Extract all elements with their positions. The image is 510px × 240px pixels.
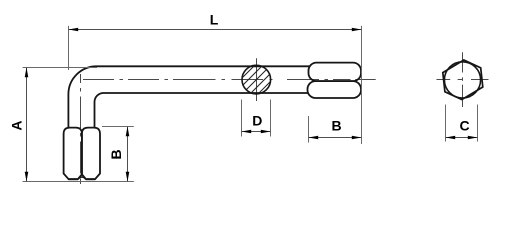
dimension L: left arrow bbox=[69, 28, 79, 32]
hexagon inscribed circle bbox=[444, 62, 480, 98]
hexagon C end view bbox=[443, 60, 483, 100]
node D-circle vertical centerline bbox=[256, 58, 258, 101]
dimension A: line bbox=[26, 68, 28, 182]
dimension B right: left extension line bbox=[308, 116, 310, 143]
left hex end: bottom flats bbox=[69, 178, 95, 180]
dimension A: top arrow bbox=[25, 68, 29, 78]
dimension A: bottom arrow bbox=[25, 172, 29, 182]
dimension L: right arrow bbox=[352, 28, 362, 32]
dimension B right: left arrow bbox=[309, 136, 319, 140]
svg-text:B: B bbox=[331, 118, 341, 134]
dimension L: line bbox=[69, 29, 362, 31]
svg-text:B: B bbox=[108, 149, 124, 159]
D section hatched circle bbox=[222, 50, 286, 114]
dimension D: line bbox=[242, 131, 271, 133]
right tip: top pill bbox=[309, 63, 362, 82]
key body outline: bottom edge + inner fillet + right edge of vertical shaft bbox=[95, 93, 309, 127]
left hex end: right pill bbox=[82, 128, 100, 180]
wire: horizontal arm centerline bbox=[83, 79, 376, 81]
dimension D: right extension line bbox=[270, 100, 272, 137]
svg-text:D: D bbox=[252, 113, 262, 129]
right tip: bottom pill bbox=[308, 81, 362, 98]
node hexagon horizontal centerline bbox=[437, 79, 489, 81]
dimension B right: right arrow bbox=[352, 136, 362, 140]
dimension B left: line bbox=[127, 127, 129, 182]
dimension A + B left: shared bottom extension line bbox=[23, 181, 134, 183]
dimension C: left arrow bbox=[446, 136, 456, 140]
left hex end: center bottom small arc bbox=[78, 177, 85, 179]
dimension B left: top extension line bbox=[102, 126, 134, 128]
svg-text:A: A bbox=[9, 120, 25, 130]
dimension D: left arrow bbox=[242, 130, 252, 134]
dimension C: line bbox=[446, 137, 478, 139]
key body outline: outer left edge + outer bend + top edge bbox=[68, 66, 309, 127]
svg-text:C: C bbox=[459, 117, 469, 133]
dimension L: extension line left bbox=[68, 26, 70, 70]
dimension B left: top arrow bbox=[126, 127, 130, 137]
node hexagon vertical centerline bbox=[462, 52, 464, 107]
dimension L + B right: shared extension line bbox=[361, 26, 363, 144]
dimension B right: line bbox=[309, 137, 362, 139]
dimension B left: bottom arrow bbox=[126, 172, 130, 182]
dimension C: left extension line bbox=[445, 105, 447, 142]
dimension D: left extension line bbox=[241, 100, 243, 137]
dimension C: right arrow bbox=[468, 136, 478, 140]
dimension A: top extension line bbox=[23, 67, 97, 69]
dimension D: right arrow bbox=[261, 130, 271, 134]
svg-text:L: L bbox=[210, 11, 219, 27]
wire: vertical arm centerline bbox=[80, 74, 82, 184]
left hex end: left pill bbox=[64, 128, 82, 180]
dimension C: right extension line bbox=[477, 105, 479, 142]
